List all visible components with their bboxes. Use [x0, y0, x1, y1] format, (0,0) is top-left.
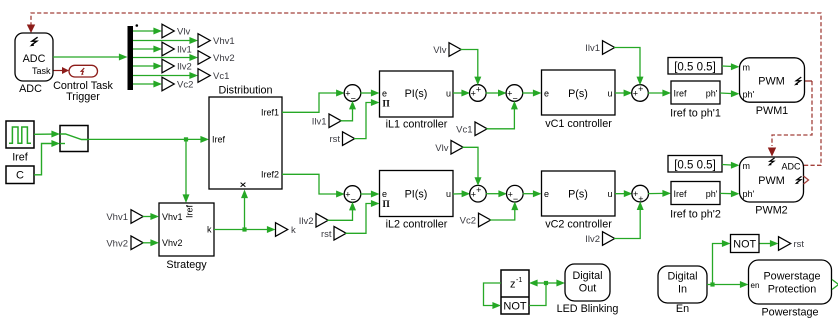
svg-text:[0.5 0.5]: [0.5 0.5]: [674, 61, 716, 73]
svg-text:+: +: [638, 84, 643, 94]
svg-text:Π: Π: [383, 99, 391, 109]
svg-text:In: In: [678, 284, 687, 296]
svg-text:u: u: [607, 189, 612, 199]
svg-text:LED Blinking: LED Blinking: [557, 303, 619, 315]
svg-text:Iref2: Iref2: [261, 170, 279, 180]
svg-text:vC1 controller: vC1 controller: [545, 118, 612, 130]
svg-text:Vlv: Vlv: [177, 27, 190, 38]
svg-text:m: m: [743, 161, 751, 171]
svg-text:Vc1: Vc1: [213, 71, 229, 82]
svg-text:Iref1: Iref1: [261, 108, 279, 118]
svg-text:−: −: [513, 194, 518, 204]
svg-text:ph': ph': [706, 189, 718, 199]
svg-text:e: e: [544, 89, 549, 99]
svg-text:rst: rst: [329, 134, 340, 145]
svg-text:Strategy: Strategy: [166, 259, 207, 271]
svg-text:Vc2: Vc2: [460, 216, 476, 227]
svg-text:ph': ph': [706, 89, 718, 99]
svg-text:Task: Task: [32, 66, 51, 76]
svg-text:Powerstage: Powerstage: [761, 307, 818, 319]
svg-text:PWM: PWM: [758, 76, 784, 88]
svg-text:Vlv: Vlv: [435, 143, 448, 154]
svg-text:Vhv1: Vhv1: [106, 212, 128, 223]
svg-text:ADC: ADC: [19, 83, 42, 95]
svg-text:PWM2: PWM2: [755, 205, 787, 217]
svg-text:NOT: NOT: [503, 300, 527, 312]
svg-text:Powerstage: Powerstage: [763, 271, 820, 283]
svg-text:−: −: [351, 194, 356, 204]
svg-text:-1: -1: [516, 277, 522, 284]
svg-text:Out: Out: [579, 282, 596, 294]
svg-text:e: e: [544, 189, 549, 199]
svg-text:rst: rst: [794, 239, 805, 250]
svg-text:z: z: [510, 279, 516, 291]
svg-text:Vhv1: Vhv1: [213, 36, 235, 47]
svg-text:Digital: Digital: [667, 271, 697, 283]
svg-text:Protection: Protection: [768, 284, 817, 296]
svg-text:m: m: [743, 62, 751, 72]
svg-text:u: u: [446, 89, 451, 99]
svg-text:P(s): P(s): [568, 88, 588, 100]
svg-text:ph': ph': [743, 89, 755, 99]
svg-text:Ilv1: Ilv1: [177, 45, 192, 56]
svg-text:iL2 controller: iL2 controller: [386, 219, 448, 231]
svg-text:ADC: ADC: [23, 53, 46, 65]
svg-text:ph': ph': [743, 189, 755, 199]
svg-text:PI(s): PI(s): [405, 88, 428, 100]
svg-text:vC2 controller: vC2 controller: [545, 219, 612, 231]
svg-text:Digital: Digital: [572, 270, 602, 282]
svg-text:Iref to ph'1: Iref to ph'1: [670, 108, 721, 120]
svg-text:Vhv2: Vhv2: [162, 238, 183, 248]
svg-text:u: u: [446, 189, 451, 199]
svg-text:Ilv2: Ilv2: [177, 62, 192, 73]
svg-text:Vc2: Vc2: [177, 80, 193, 91]
svg-text:−: −: [512, 93, 517, 103]
svg-text:PWM1: PWM1: [756, 105, 788, 117]
svg-text:+: +: [638, 194, 643, 204]
svg-text:Iref: Iref: [185, 204, 195, 218]
svg-text:k: k: [207, 225, 212, 235]
svg-text:Trigger: Trigger: [66, 91, 100, 103]
svg-text:+: +: [476, 84, 481, 94]
svg-text:Vhv2: Vhv2: [106, 238, 128, 249]
svg-text:Iref: Iref: [212, 135, 226, 145]
svg-text:Ilv1: Ilv1: [585, 43, 600, 54]
svg-text:Vc1: Vc1: [456, 124, 472, 135]
svg-text:Π: Π: [383, 200, 391, 210]
svg-text:Iref: Iref: [674, 89, 688, 99]
svg-text:Iref: Iref: [674, 189, 688, 199]
svg-text:Vhv1: Vhv1: [162, 212, 183, 222]
svg-text:Ilv2: Ilv2: [299, 216, 314, 227]
svg-text:P(s): P(s): [568, 189, 588, 201]
svg-text:Vlv: Vlv: [433, 45, 446, 56]
svg-text:u: u: [607, 89, 612, 99]
svg-text:NOT: NOT: [733, 239, 756, 251]
svg-text:rst: rst: [321, 229, 332, 240]
svg-text:e: e: [382, 189, 387, 199]
svg-text:Iref to ph'2: Iref to ph'2: [670, 209, 721, 221]
svg-text:En: En: [676, 303, 689, 315]
svg-text:Vhv2: Vhv2: [213, 53, 235, 64]
svg-text:[0.5 0.5]: [0.5 0.5]: [674, 159, 716, 171]
svg-text:C: C: [16, 170, 24, 182]
svg-text:PWM: PWM: [758, 175, 784, 187]
svg-text:k: k: [291, 225, 296, 236]
svg-text:Distribution: Distribution: [218, 84, 272, 96]
svg-text:Ilv2: Ilv2: [585, 234, 600, 245]
svg-text:Iref: Iref: [12, 151, 29, 163]
svg-text:en: en: [751, 281, 760, 290]
svg-text:ADC: ADC: [781, 161, 801, 171]
svg-text:iL1 controller: iL1 controller: [386, 118, 448, 130]
svg-text:e: e: [382, 89, 387, 99]
svg-text:−: −: [351, 93, 356, 103]
svg-text:+: +: [476, 185, 481, 195]
svg-text:Ilv1: Ilv1: [312, 116, 327, 127]
svg-text:PI(s): PI(s): [405, 189, 428, 201]
